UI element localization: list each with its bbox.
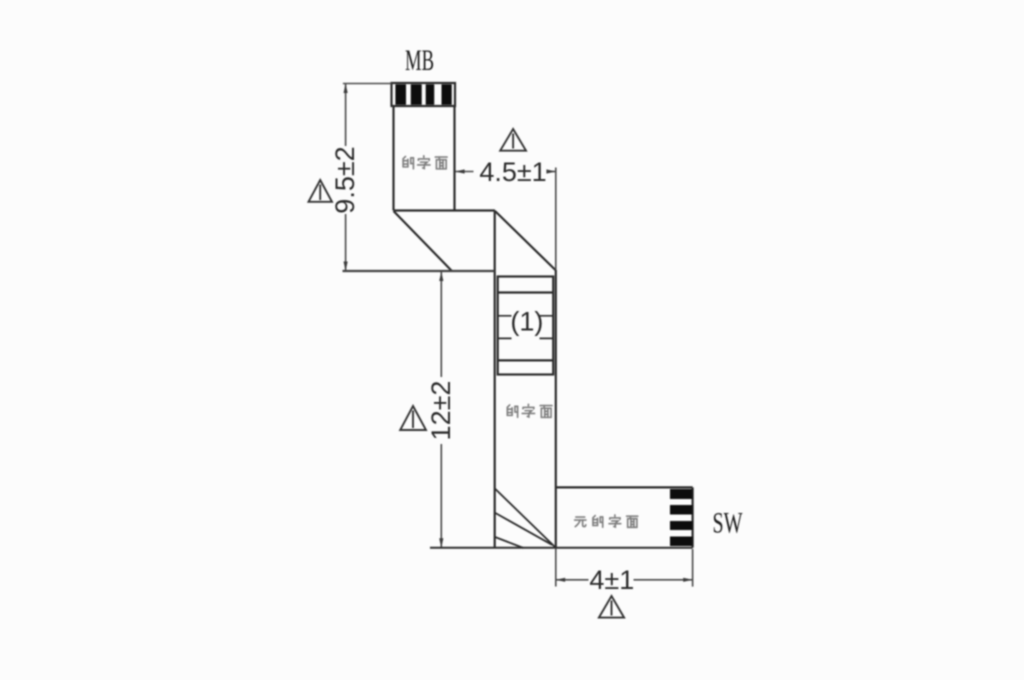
svg-text:MB: MB [405,44,434,77]
svg-text:9.5±2: 9.5±2 [330,146,360,213]
svg-text:12±2: 12±2 [426,381,456,441]
svg-text:4±1: 4±1 [589,565,634,595]
svg-text:(1): (1) [510,307,543,337]
svg-text:SW: SW [713,507,743,540]
svg-text:4.5±1: 4.5±1 [479,157,546,187]
